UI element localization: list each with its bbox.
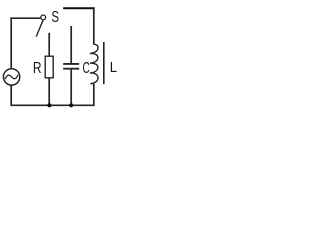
switch S contact circle bbox=[41, 15, 46, 20]
wire: bottom horizontal bbox=[10, 104, 94, 106]
wire: top-left horizontal from source branch to switch bbox=[10, 17, 40, 19]
resistor R box bbox=[45, 56, 53, 78]
junction node at resistor branch / bottom wire bbox=[47, 103, 51, 107]
svg-text:C: C bbox=[83, 59, 91, 77]
capacitor C bottom plate bbox=[63, 68, 79, 70]
capacitor C top plate bbox=[63, 63, 79, 65]
wire: source bottom vertical bbox=[10, 85, 12, 105]
label C bbox=[83, 59, 91, 77]
wire: right vertical from inductor down to bottom wire bbox=[93, 84, 95, 106]
inductor L coil (4 loops) bbox=[90, 44, 98, 84]
wire: resistor branch bottom vertical bbox=[48, 78, 50, 106]
label R bbox=[33, 58, 42, 76]
inductor iron core bar bbox=[103, 42, 105, 84]
wire: top-right horizontal bbox=[63, 7, 94, 9]
label S bbox=[51, 7, 59, 25]
wire: resistor branch top vertical bbox=[48, 33, 50, 57]
wire: capacitor branch top vertical bbox=[70, 26, 72, 64]
switch S lever (open, hanging down-left) bbox=[36, 20, 43, 36]
wire: capacitor branch bottom vertical bbox=[70, 69, 72, 105]
svg-text:L: L bbox=[110, 59, 117, 76]
junction node at capacitor branch / bottom wire bbox=[69, 103, 73, 107]
wire: right vertical from top wire down to inductor bbox=[93, 8, 95, 44]
label L bbox=[110, 59, 117, 76]
svg-text:S: S bbox=[51, 7, 59, 25]
AC source sine symbol bbox=[5, 75, 18, 80]
svg-text:R: R bbox=[33, 58, 42, 76]
wire: left vertical from top wire down to source top bbox=[10, 17, 12, 69]
AC source circle bbox=[3, 69, 19, 85]
